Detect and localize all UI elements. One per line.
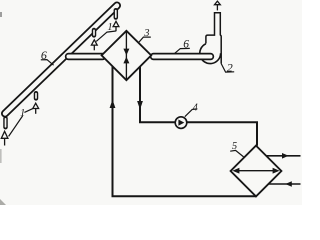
svg-text:4: 4	[193, 103, 198, 114]
label 2 with leader	[221, 60, 234, 74]
duct 6 right capsule (exchanger to fan)	[154, 53, 211, 60]
svg-text:3: 3	[143, 28, 149, 39]
svg-text:5: 5	[232, 141, 237, 152]
label 1 (bottom) with leader	[9, 108, 33, 136]
scan smudge bottom-left corner	[0, 199, 6, 205]
heat exchanger 3 inner flow line	[125, 31, 127, 80]
pump 4	[175, 117, 187, 129]
svg-text:1: 1	[107, 22, 112, 33]
vent tube 1a (top)	[114, 10, 119, 17]
label 5 with leader	[230, 141, 243, 157]
pipe: exchanger 3 to bottom duct (left riser)	[113, 66, 257, 196]
svg-text:6: 6	[41, 48, 47, 62]
duct 6 left capsule (collector to exchanger)	[69, 53, 103, 60]
fan U2 volute circle (visible arc)	[200, 44, 221, 64]
svg-text:2: 2	[227, 60, 233, 74]
air inlet arrow 1b	[91, 40, 97, 51]
heat exchanger 3 diamond	[102, 31, 152, 80]
vent tube 1d (bottom end)	[3, 118, 8, 127]
outlet line from exchanger 5 (to right, top)	[266, 153, 300, 159]
svg-text:1: 1	[20, 108, 25, 119]
scan speck top-left	[0, 12, 2, 17]
air inlet arrow 1d	[1, 131, 8, 145]
label 3 with leader	[138, 28, 151, 43]
pipe: exchanger 3 to pump to exchanger 5	[140, 67, 257, 146]
air inlet arrow 1c	[33, 103, 39, 114]
label 4 with leader	[185, 103, 198, 117]
label 1 (top) with leader	[96, 22, 116, 42]
inlet line to exchanger 5 (from right, bottom)	[268, 181, 300, 187]
label 6 (right) with leader	[175, 39, 190, 54]
scan smudge left edge	[0, 149, 2, 163]
fan U2 outlet casing	[206, 13, 221, 64]
fan outlet arrow	[215, 1, 221, 10]
label 6 (left) with leader	[41, 48, 54, 65]
vent tube 1c	[34, 93, 39, 98]
air inlet arrow 1a	[113, 21, 119, 31]
heat exchanger 5 double arrow	[232, 168, 279, 174]
heat exchanger 3 down arrowhead	[123, 49, 129, 56]
heat exchanger 5 diamond	[231, 146, 282, 197]
up flow arrow on left riser	[110, 100, 116, 109]
heat exchanger 3 up arrowhead	[123, 57, 129, 64]
solar collector pipe (slanted duct)	[5, 6, 117, 114]
down flow arrow on right drop	[137, 101, 143, 110]
vent tube 1b	[92, 30, 97, 35]
svg-text:6: 6	[183, 39, 189, 51]
